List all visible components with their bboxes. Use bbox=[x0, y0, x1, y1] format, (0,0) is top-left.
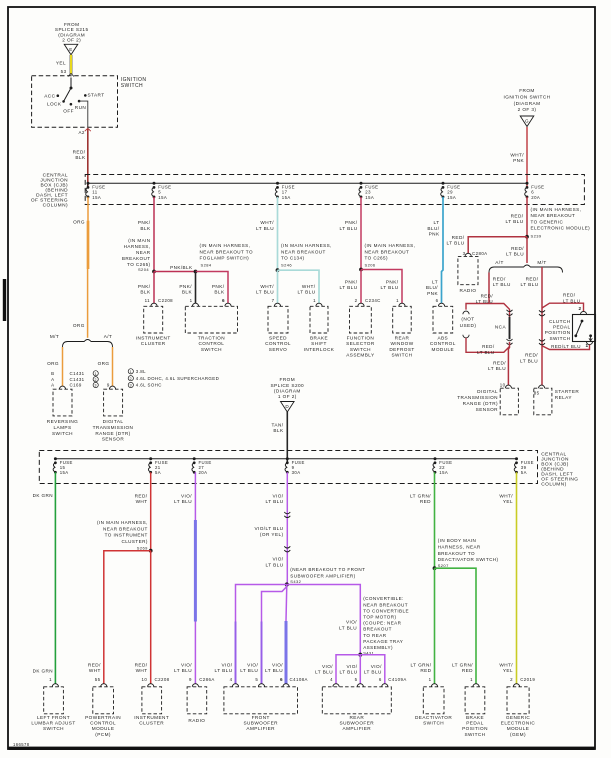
wire WHT/PNK to CJB fuse 6 bbox=[526, 127, 528, 187]
svg-text:1: 1 bbox=[396, 298, 399, 303]
label WHT/LT BLU bbox=[256, 220, 274, 231]
wire PNK/BLK from fuse 5 to splice S204 bbox=[153, 197, 155, 272]
wire RED/LT BLU to not-used stub and inline connector bbox=[466, 304, 510, 318]
wire LT GRN/RED to deactivator switch bbox=[434, 568, 436, 684]
label RED/LT BLU (clutch return) bbox=[551, 344, 581, 349]
pin 9 C286A bbox=[189, 677, 215, 682]
svg-text:MODULE: MODULE bbox=[507, 726, 530, 731]
svg-text:SWITCH: SWITCH bbox=[43, 726, 64, 731]
svg-text:(COUPE: NEAR: (COUPE: NEAR bbox=[363, 621, 401, 626]
svg-text:RED/: RED/ bbox=[135, 493, 148, 498]
svg-text:LT BLU: LT BLU bbox=[381, 285, 399, 290]
fuse 15 15A bbox=[53, 457, 73, 475]
svg-text:ORG: ORG bbox=[47, 361, 59, 366]
deactivator switch bbox=[415, 684, 452, 726]
splice S207 bbox=[433, 566, 437, 570]
label VIO/LT BLU (fuse 9) bbox=[266, 493, 284, 504]
svg-text:BLU/: BLU/ bbox=[426, 285, 438, 290]
label ORG (left drop) bbox=[47, 361, 59, 366]
svg-text:SWITCH: SWITCH bbox=[423, 721, 444, 726]
svg-text:LT BLU: LT BLU bbox=[315, 670, 333, 675]
svg-text:30A: 30A bbox=[292, 470, 301, 475]
svg-text:SWITCH: SWITCH bbox=[350, 347, 371, 352]
wire TAN/BLK to CJB fuse 9 bbox=[286, 412, 288, 464]
svg-text:1: 1 bbox=[49, 677, 52, 682]
front subwoofer amplifier bbox=[224, 684, 298, 732]
svg-text:RED: RED bbox=[462, 668, 473, 673]
thick overlay front amp pin 5 bbox=[261, 622, 263, 684]
stub connector (not used) lower bbox=[463, 335, 469, 338]
svg-text:5: 5 bbox=[255, 677, 258, 682]
svg-text:WHT: WHT bbox=[136, 499, 148, 504]
svg-text:B: B bbox=[51, 371, 54, 376]
svg-text:LT BLU: LT BLU bbox=[256, 290, 274, 295]
svg-text:BLU/: BLU/ bbox=[427, 226, 439, 231]
svg-text:VIO/: VIO/ bbox=[272, 662, 283, 667]
label M/T bbox=[537, 260, 546, 265]
svg-text:15A: 15A bbox=[447, 195, 456, 200]
label LT BLU/PNK (upper) bbox=[427, 220, 440, 236]
svg-text:VIO/LT BLU: VIO/LT BLU bbox=[254, 526, 283, 531]
svg-text:LAMPS: LAMPS bbox=[54, 425, 72, 430]
bus wire inside bottom CJB bbox=[55, 458, 516, 460]
brake shift interlock bbox=[304, 303, 335, 352]
inline connector M/T lower pair bbox=[539, 339, 545, 345]
pin 1 (lumbar) bbox=[49, 677, 52, 682]
svg-text:SWITCH: SWITCH bbox=[52, 431, 73, 436]
svg-text:(GEM): (GEM) bbox=[510, 732, 526, 737]
pin 1 (traction) bbox=[190, 298, 193, 303]
node: FROM SPLICE S215 (DIAGRAM 2 OF 2) bbox=[55, 22, 89, 43]
label RED/LT BLU (M/T drop) bbox=[521, 276, 539, 287]
svg-text:DEACTIVATOR SWITCH): DEACTIVATOR SWITCH) bbox=[438, 557, 499, 562]
svg-text:LT BLU: LT BLU bbox=[265, 668, 283, 673]
splice S206 bbox=[359, 268, 363, 272]
svg-text:(IN BODY MAIN: (IN BODY MAIN bbox=[438, 538, 477, 543]
pin 11 C2208 bbox=[145, 298, 174, 303]
svg-text:BLK: BLK bbox=[214, 290, 225, 295]
wire LT GRN/RED fuse 22 to splice S207 bbox=[434, 472, 436, 568]
label RED/WHT (top) bbox=[135, 493, 148, 504]
svg-text:CLUSTER: CLUSTER bbox=[139, 721, 164, 726]
svg-text:(OR YEL): (OR YEL) bbox=[260, 532, 284, 537]
svg-text:BREAKOUT TO: BREAKOUT TO bbox=[438, 551, 475, 556]
svg-text:LT BLU: LT BLU bbox=[521, 282, 539, 287]
svg-text:SPEED: SPEED bbox=[269, 336, 287, 341]
label A/T bbox=[495, 260, 504, 265]
traction control switch bbox=[185, 303, 237, 352]
svg-text:NEAR BREAKOUT: NEAR BREAKOUT bbox=[281, 249, 326, 254]
fuse 22 15A bbox=[433, 457, 453, 475]
svg-text:4: 4 bbox=[230, 677, 233, 682]
svg-text:BLK: BLK bbox=[140, 290, 151, 295]
label RED/WHT (cluster drop) bbox=[135, 662, 148, 673]
svg-text:2: 2 bbox=[94, 378, 97, 382]
pin 6 (traction) bbox=[222, 298, 225, 303]
svg-text:7: 7 bbox=[272, 298, 275, 303]
label LT GRN/RED (top) bbox=[410, 493, 431, 504]
radio bbox=[458, 253, 478, 292]
svg-text:RED/: RED/ bbox=[482, 344, 495, 349]
svg-text:YEL: YEL bbox=[503, 668, 513, 673]
svg-text:(IN MAIN HARNESS,: (IN MAIN HARNESS, bbox=[97, 520, 148, 525]
svg-text:1: 1 bbox=[190, 298, 193, 303]
svg-text:WHT/: WHT/ bbox=[260, 284, 274, 289]
svg-text:OFF: OFF bbox=[63, 109, 74, 114]
svg-text:LT BLU: LT BLU bbox=[477, 350, 494, 355]
svg-text:6: 6 bbox=[436, 298, 439, 303]
svg-text:(DIAGRAM: (DIAGRAM bbox=[274, 388, 301, 393]
svg-text:RED/: RED/ bbox=[493, 276, 506, 281]
off-page connector triangle E bbox=[64, 44, 78, 55]
splice S431 bbox=[358, 653, 362, 657]
pin 53 bbox=[61, 69, 74, 76]
svg-text:TO C265): TO C265) bbox=[365, 256, 388, 261]
pin 10 bbox=[500, 383, 506, 388]
wire VIO/LT BLU fuse 9 to inline connector bbox=[286, 472, 288, 584]
svg-text:S269: S269 bbox=[137, 545, 148, 550]
splice S246 note bbox=[281, 243, 332, 268]
svg-text:PEDAL: PEDAL bbox=[553, 325, 570, 330]
svg-text:1: 1 bbox=[470, 677, 473, 682]
label VIO/LT BLU (bottom radio) bbox=[174, 662, 192, 673]
svg-text:BREAKOUT: BREAKOUT bbox=[122, 256, 151, 261]
svg-text:LT BLU: LT BLU bbox=[476, 299, 493, 304]
svg-text:LT BLU: LT BLU bbox=[298, 290, 316, 295]
svg-text:C1431: C1431 bbox=[70, 377, 85, 382]
svg-text:CONTROL: CONTROL bbox=[265, 341, 291, 346]
svg-text:S246: S246 bbox=[281, 263, 292, 268]
wire PNK/BLK S284 down to traction pin 1 bbox=[195, 272, 197, 304]
node: FROM SPLICE S200 (DIAGRAM 1 OF 2) bbox=[271, 377, 305, 399]
svg-text:MODULE: MODULE bbox=[92, 726, 115, 731]
svg-text:C4109A: C4109A bbox=[388, 677, 406, 682]
svg-text:TRANSMISSION: TRANSMISSION bbox=[93, 425, 134, 430]
svg-text:G: G bbox=[525, 119, 529, 124]
svg-text:LT BLU: LT BLU bbox=[340, 285, 358, 290]
svg-text:(IN MAIN HARNESS,: (IN MAIN HARNESS, bbox=[200, 243, 251, 248]
svg-text:BRAKE: BRAKE bbox=[310, 336, 328, 341]
inline connector pair lower (fuse 9 col) bbox=[284, 546, 290, 552]
central junction box (bottom) dashed outline bbox=[39, 451, 537, 484]
svg-text:BLK: BLK bbox=[273, 428, 284, 433]
svg-text:RANGE (DTR): RANGE (DTR) bbox=[95, 431, 130, 436]
label LT BLU/PNK (lower) bbox=[426, 279, 439, 295]
svg-text:5A: 5A bbox=[155, 470, 161, 475]
svg-text:LT BLU: LT BLU bbox=[266, 562, 284, 567]
svg-text:20A: 20A bbox=[531, 195, 540, 200]
svg-text:A/T: A/T bbox=[495, 260, 504, 265]
label YEL bbox=[56, 61, 66, 66]
label RED/LT BLU (to starter relay) bbox=[520, 353, 538, 364]
svg-text:NEAR BREAKOUT: NEAR BREAKOUT bbox=[103, 526, 148, 531]
svg-text:BLK: BLK bbox=[75, 155, 86, 160]
svg-text:INTERLOCK: INTERLOCK bbox=[304, 347, 335, 352]
svg-text:SPLICE S200: SPLICE S200 bbox=[271, 383, 305, 388]
label RED/LT BLU (A/T lower loop) bbox=[477, 344, 495, 355]
instrument cluster (top) bbox=[136, 303, 171, 346]
svg-text:3: 3 bbox=[130, 384, 133, 388]
wire WHT/LT BLU to speed control servo bbox=[277, 270, 279, 303]
convertible/coupe breakout note bbox=[363, 596, 409, 655]
wire LT GRN/RED to brake pedal position switch bbox=[435, 568, 477, 684]
svg-text:55: 55 bbox=[95, 677, 101, 682]
svg-text:SUBWOOFER: SUBWOOFER bbox=[243, 721, 278, 726]
wire RED/BLK ignition A2 to CJB fuse 11 bbox=[87, 129, 89, 187]
splice S269 note bbox=[97, 520, 148, 550]
wire RED/LT BLU M/T drop bbox=[541, 267, 543, 346]
wire VIO/LT BLU S432 to front amp pin 5 bbox=[262, 587, 287, 684]
radio (bottom) bbox=[187, 684, 207, 723]
svg-text:15A: 15A bbox=[158, 195, 167, 200]
svg-text:CLUSTER): CLUSTER) bbox=[121, 539, 147, 544]
instrument cluster (bottom) bbox=[134, 684, 169, 726]
svg-text:POSITION: POSITION bbox=[545, 330, 571, 335]
fuse 6 20A bbox=[525, 182, 545, 200]
svg-text:GENERIC: GENERIC bbox=[506, 715, 530, 720]
svg-text:WHT: WHT bbox=[89, 668, 101, 673]
splice S204 bbox=[152, 270, 156, 274]
label DK GRN (top) bbox=[33, 493, 53, 498]
svg-text:VIO/: VIO/ bbox=[181, 493, 192, 498]
svg-text:(IN MAIN HARNESS,: (IN MAIN HARNESS, bbox=[531, 207, 582, 212]
stub connector (not used) upper bbox=[463, 311, 469, 314]
svg-text:C286A: C286A bbox=[199, 677, 215, 682]
svg-text:9: 9 bbox=[189, 677, 192, 682]
label LT GRN/RED (brake drop) bbox=[452, 662, 473, 673]
fuse 39 5A bbox=[514, 457, 534, 475]
svg-text:WINDOW: WINDOW bbox=[390, 341, 413, 346]
svg-text:C169: C169 bbox=[70, 383, 82, 388]
splice S239 bbox=[525, 235, 529, 239]
label WHT/YEL (bottom) bbox=[499, 662, 513, 673]
label RED/BLK bbox=[73, 149, 86, 160]
svg-text:S204: S204 bbox=[138, 267, 149, 272]
svg-text:LT GRN/: LT GRN/ bbox=[411, 662, 432, 667]
svg-text:TO INSTRUMENT: TO INSTRUMENT bbox=[105, 533, 148, 538]
svg-text:LUMBAR ADJUST: LUMBAR ADJUST bbox=[31, 721, 75, 726]
label (NOT USED) bbox=[460, 317, 477, 328]
svg-text:DIGITAL: DIGITAL bbox=[477, 389, 498, 394]
pins 4 5 6 C4108A bbox=[230, 677, 308, 682]
label WHT/LT BLU (pin 1 drop) bbox=[298, 284, 316, 295]
svg-text:FROM: FROM bbox=[519, 88, 534, 93]
svg-text:DIGITAL: DIGITAL bbox=[103, 419, 124, 424]
rear window defrost switch bbox=[389, 303, 414, 357]
svg-text:1: 1 bbox=[313, 298, 316, 303]
svg-text:RED: RED bbox=[420, 668, 431, 673]
svg-text:1 OF 2): 1 OF 2) bbox=[278, 394, 297, 399]
wire RED/LT BLU clutch pin 1 back to connector bbox=[542, 342, 593, 350]
svg-text:S284: S284 bbox=[201, 263, 212, 268]
svg-text:4.6L SOHC: 4.6L SOHC bbox=[136, 383, 162, 388]
svg-text:YEL: YEL bbox=[503, 499, 513, 504]
svg-text:(PCM): (PCM) bbox=[95, 732, 111, 737]
svg-text:SENSOR: SENSOR bbox=[102, 437, 125, 442]
svg-text:E: E bbox=[69, 47, 72, 52]
svg-text:11: 11 bbox=[145, 298, 151, 303]
svg-text:S239: S239 bbox=[531, 234, 542, 239]
splice S432 note bbox=[290, 567, 365, 584]
svg-text:C2208: C2208 bbox=[155, 677, 170, 682]
svg-text:D: D bbox=[285, 404, 289, 409]
svg-text:2: 2 bbox=[355, 298, 358, 303]
label VIO/LT BLU (above S432) bbox=[266, 557, 284, 568]
wire WHT/LT BLU to brake shift interlock bbox=[278, 270, 320, 303]
svg-text:6: 6 bbox=[222, 298, 225, 303]
svg-text:VIO/: VIO/ bbox=[346, 620, 357, 625]
svg-text:RED/LT BLU: RED/LT BLU bbox=[551, 344, 581, 349]
svg-text:15A: 15A bbox=[92, 195, 101, 200]
svg-text:RED/: RED/ bbox=[511, 246, 524, 251]
svg-text:VIO/: VIO/ bbox=[247, 662, 258, 667]
svg-text:IGNITION: IGNITION bbox=[121, 77, 147, 83]
splice S432 bbox=[285, 582, 289, 586]
svg-text:ASSEMBLY: ASSEMBLY bbox=[346, 353, 375, 358]
svg-text:C2208: C2208 bbox=[158, 298, 173, 303]
svg-text:1: 1 bbox=[94, 372, 97, 376]
svg-text:M/T: M/T bbox=[537, 260, 546, 265]
label ORG (right drop) bbox=[98, 361, 110, 366]
svg-text:PNK/: PNK/ bbox=[138, 284, 151, 289]
svg-text:START: START bbox=[88, 92, 105, 97]
svg-text:LT BLU: LT BLU bbox=[506, 219, 524, 224]
svg-text:WHT/: WHT/ bbox=[260, 220, 274, 225]
wire RED/LT BLU to starter relay pin 85 bbox=[541, 346, 543, 386]
fuse 11 15A bbox=[86, 182, 106, 200]
wire PNK/BLK S204 to S284 bbox=[154, 271, 196, 273]
wire VIO/LT BLU fuse 27 to radio pin 9 bbox=[194, 472, 196, 684]
label RED/LT BLU (to DTR) bbox=[488, 360, 506, 371]
svg-text:2: 2 bbox=[130, 377, 133, 381]
svg-text:CLUTCH: CLUTCH bbox=[549, 319, 571, 324]
svg-text:VIO/: VIO/ bbox=[322, 664, 333, 669]
function selector switch assembly bbox=[346, 303, 375, 357]
labels VIO/LT BLU front amp drops bbox=[215, 662, 233, 673]
label WHT/YEL (top) bbox=[499, 493, 513, 504]
svg-text:RED/: RED/ bbox=[73, 149, 86, 154]
label PNK/BLK (pin 6 drop) bbox=[212, 284, 225, 295]
wire ORG to DTR sensor pin 9 bbox=[112, 347, 114, 386]
pin 1 (deactivator) bbox=[429, 677, 432, 682]
label A/T bbox=[104, 334, 113, 339]
wire RED/LT BLU A/T drop bbox=[488, 273, 490, 304]
svg-text:A/T: A/T bbox=[104, 334, 113, 339]
pin 6 (ABS) bbox=[436, 298, 439, 303]
svg-text:TO CONVERTIBLE: TO CONVERTIBLE bbox=[363, 608, 409, 613]
svg-text:LT BLU: LT BLU bbox=[215, 668, 233, 673]
svg-text:PNK/: PNK/ bbox=[179, 284, 192, 289]
wire PNK/BLK S204 down to instrument cluster pin 11 bbox=[153, 272, 155, 304]
svg-text:PNK: PNK bbox=[429, 232, 440, 237]
svg-text:PNK: PNK bbox=[427, 291, 438, 296]
svg-text:SENSOR: SENSOR bbox=[476, 407, 499, 412]
wire VIO/LT BLU S431 to rear amp pin 4 bbox=[336, 655, 360, 684]
svg-text:LT BLU: LT BLU bbox=[174, 668, 192, 673]
svg-text:15A: 15A bbox=[60, 470, 69, 475]
svg-text:NEAR BREAKOUT: NEAR BREAKOUT bbox=[531, 213, 576, 218]
svg-text:TRACTION: TRACTION bbox=[198, 336, 225, 341]
svg-text:6: 6 bbox=[379, 677, 382, 682]
branch bar M/T A/T under ORG bbox=[63, 340, 113, 348]
label VIO/LT BLU (OR YEL) bbox=[254, 526, 283, 537]
svg-text:USED): USED) bbox=[460, 323, 477, 328]
svg-text:REAR: REAR bbox=[395, 336, 410, 341]
wire WHT/YEL fuse 39 to GEM bbox=[516, 472, 518, 684]
svg-text:LT: LT bbox=[434, 220, 440, 225]
svg-text:2: 2 bbox=[510, 677, 513, 682]
svg-text:ORG: ORG bbox=[73, 323, 85, 328]
pin 1 (clutch) bbox=[586, 343, 589, 348]
svg-text:INSTRUMENT: INSTRUMENT bbox=[136, 336, 171, 341]
svg-text:RED/: RED/ bbox=[526, 276, 539, 281]
svg-text:LOCK: LOCK bbox=[47, 102, 62, 107]
label LT GRN/RED (deactivator drop) bbox=[411, 662, 432, 673]
splice S246 bbox=[276, 268, 280, 272]
svg-text:NEAR BREAKOUT: NEAR BREAKOUT bbox=[363, 602, 408, 607]
label PNK/BLK (pin 1 drop) bbox=[179, 284, 192, 295]
svg-text:1: 1 bbox=[429, 677, 432, 682]
svg-text:10: 10 bbox=[500, 383, 506, 388]
svg-text:RED/: RED/ bbox=[135, 662, 148, 667]
label ORG (lower) bbox=[73, 323, 85, 328]
svg-text:IGNITION SWITCH: IGNITION SWITCH bbox=[504, 95, 551, 100]
svg-text:REVERSING: REVERSING bbox=[47, 419, 78, 424]
label WHT/LT BLU (pin 7 drop) bbox=[256, 284, 274, 295]
svg-text:SPLICE S215: SPLICE S215 bbox=[55, 27, 89, 32]
label RED/LT BLU (to clutch pin 2) bbox=[563, 293, 580, 304]
svg-text:RADIO: RADIO bbox=[188, 718, 205, 723]
svg-text:LT BLU: LT BLU bbox=[488, 366, 506, 371]
svg-text:VIO/: VIO/ bbox=[181, 662, 192, 667]
svg-text:SELECTOR: SELECTOR bbox=[346, 341, 375, 346]
svg-text:DEACTIVATOR: DEACTIVATOR bbox=[415, 715, 452, 720]
svg-text:BRAKE: BRAKE bbox=[466, 715, 484, 720]
inline connector M/T upper pair bbox=[539, 310, 545, 316]
svg-text:LT BLU: LT BLU bbox=[240, 668, 258, 673]
reversing lamps switch bbox=[47, 386, 78, 436]
svg-text:VIO/: VIO/ bbox=[371, 664, 382, 669]
svg-text:DK GRN: DK GRN bbox=[33, 493, 53, 498]
svg-text:(IN MAIN HARNESS,: (IN MAIN HARNESS, bbox=[365, 243, 416, 248]
svg-text:VIO/: VIO/ bbox=[346, 664, 357, 669]
rear subwoofer amplifier bbox=[322, 684, 391, 732]
off-page connector triangle G bbox=[520, 116, 534, 127]
svg-text:PNK/: PNK/ bbox=[386, 279, 399, 284]
svg-text:4.6L DOHC, 4.6L SUPERCHARGED: 4.6L DOHC, 4.6L SUPERCHARGED bbox=[136, 376, 219, 381]
svg-text:10: 10 bbox=[141, 677, 147, 682]
svg-text:LT BLU: LT BLU bbox=[266, 499, 284, 504]
wire YEL from splice S215 to ignition switch pin 53 bbox=[70, 55, 73, 74]
generic electronic module (GEM) bbox=[501, 684, 536, 737]
svg-text:53: 53 bbox=[61, 69, 67, 74]
labels VIO/LT BLU rear amp drops bbox=[315, 664, 333, 675]
svg-text:STARTER: STARTER bbox=[555, 389, 580, 394]
svg-text:AMPLIFIER: AMPLIFIER bbox=[343, 726, 372, 731]
ignition switch box bbox=[32, 76, 118, 128]
central junction box (bottom) label bbox=[541, 452, 578, 488]
starter relay bbox=[534, 385, 580, 415]
svg-text:VIO/: VIO/ bbox=[221, 662, 232, 667]
svg-text:6: 6 bbox=[280, 677, 283, 682]
svg-text:5: 5 bbox=[355, 677, 358, 682]
label ORG bbox=[73, 220, 85, 225]
fuse 17 15A bbox=[275, 182, 295, 200]
branch bar A/T M/T bbox=[489, 265, 563, 273]
svg-text:2 OF 3): 2 OF 3) bbox=[518, 107, 537, 112]
label NCA bbox=[495, 325, 507, 330]
pin 1 (defrost) bbox=[396, 298, 399, 303]
